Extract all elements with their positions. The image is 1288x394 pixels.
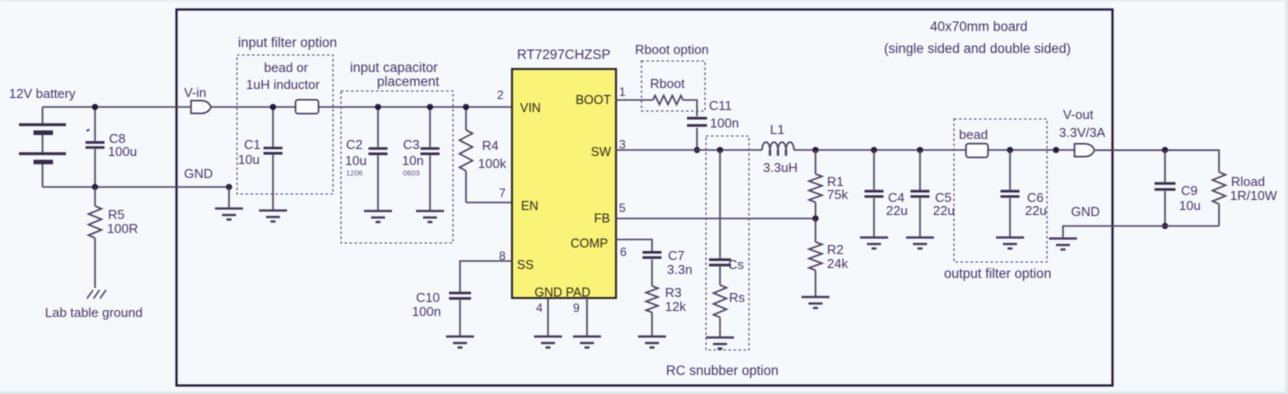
svg-text:SS: SS [517,258,534,272]
resistor R3 [646,285,686,336]
capacitor C8 [86,107,137,187]
svg-text:R4: R4 [482,138,499,153]
wire: V-in to VIN pin (input rail) [211,106,513,108]
svg-text:1: 1 [619,85,626,99]
svg-text:R5: R5 [108,207,125,222]
svg-text:SW: SW [591,145,611,159]
svg-text:V-out: V-out [1063,107,1094,122]
svg-text:10n: 10n [402,153,424,168]
resistor Rboot [650,76,685,105]
wire: GND stem [228,187,230,208]
junction: C2 top [375,104,381,110]
wire: V-out to Rload [1095,150,1219,172]
capacitor C6 [1001,150,1047,237]
svg-text:GND PAD: GND PAD [535,286,591,300]
wire: battery + rail to V-in [43,106,192,108]
capacitor C9 [1155,150,1201,226]
ground: output GND [1049,239,1077,250]
inductor L1 [762,122,798,175]
bottom edge strip [0,392,1288,394]
svg-text:100u: 100u [108,144,137,159]
ferrite bead (input) [296,100,319,114]
svg-text:R2: R2 [827,242,844,257]
svg-text:C9: C9 [1181,183,1198,198]
connector V-in [184,85,211,113]
lab table ground symbol [45,290,143,320]
svg-text:1uH inductor: 1uH inductor [246,77,320,92]
wire: EN pin [466,202,513,204]
svg-text:100n: 100n [710,116,739,131]
svg-text:input filter option: input filter option [238,35,337,50]
svg-text:4: 4 [536,301,543,315]
svg-text:EN: EN [521,199,538,213]
capacitor C5 [911,150,955,237]
svg-text:output filter option: output filter option [944,266,1051,281]
wire: GND pad pin 9 [586,298,588,337]
wire: SS pin to C10 [460,261,513,292]
junction: FB divider [812,215,818,221]
ground: C6 [996,238,1024,249]
dashed box: RC snubber option [706,136,749,350]
svg-text:input capacitor: input capacitor [350,60,438,75]
junction: C6 tap [1007,147,1013,153]
resistor Rs [714,267,746,337]
svg-text:12V battery: 12V battery [9,86,76,101]
svg-text:bead or: bead or [264,60,309,75]
svg-text:22u: 22u [933,203,955,218]
svg-text:22u: 22u [886,203,908,218]
svg-text:40x70mm board: 40x70mm board [930,19,1028,34]
svg-text:C7: C7 [668,248,685,263]
svg-text:Cs: Cs [728,257,744,272]
svg-text:V-in: V-in [184,85,206,100]
wire: FB pin to divider [615,218,816,220]
ground: C4 [860,238,888,249]
svg-text:Rs: Rs [729,290,745,305]
svg-text:Rload: Rload [1231,174,1265,189]
svg-text:VIN: VIN [520,101,541,115]
junction: C9 bottom [1162,223,1168,229]
wire: load return (GND) [1063,226,1219,238]
svg-text:0603: 0603 [403,169,420,178]
svg-text:GND: GND [184,166,213,181]
ferrite bead (output) [966,144,988,158]
svg-text:Rboot: Rboot [650,76,685,91]
ground: pin 4 [534,337,562,348]
svg-text:9: 9 [573,301,580,315]
svg-text:24k: 24k [827,256,848,271]
svg-text:10u: 10u [345,153,367,168]
ground: pin 9 [573,337,601,348]
svg-text:5: 5 [619,201,626,215]
ground: R2 [802,297,830,308]
ground: input GND [215,209,243,220]
svg-text:1R/10W: 1R/10W [1230,188,1278,203]
wire: GND pad pin 4 [547,298,549,337]
svg-text:placement: placement [377,74,440,89]
junction: C4 tap [871,147,877,153]
capacitor C11 [687,98,739,150]
ground: C10 [446,337,474,348]
dashed box: Rboot option [642,61,706,111]
svg-text:C3: C3 [403,137,420,152]
junction: snubber tap [717,147,723,153]
svg-text:100R: 100R [107,221,138,236]
resistor Rload [1213,172,1278,226]
svg-text:100n: 100n [412,304,441,319]
ground: R3 [638,337,666,348]
svg-text:2: 2 [497,88,504,102]
resistor R5 [89,187,139,288]
svg-text:Rboot option: Rboot option [635,42,709,57]
svg-text:6: 6 [620,245,627,259]
dashed box: input filter option [237,55,333,194]
svg-text:12k: 12k [665,299,686,314]
capacitor C10 [412,290,471,336]
wire: battery - rail (GND) [43,186,230,188]
svg-text:BOOT: BOOT [576,93,612,107]
svg-text:3.3uH: 3.3uH [763,160,798,175]
resistor R4 [460,107,507,203]
svg-text:100k: 100k [478,156,507,171]
svg-text:RT7297CHZSP: RT7297CHZSP [517,47,611,62]
svg-text:8: 8 [499,249,506,263]
junction: C9 top [1162,147,1168,153]
svg-text:10u: 10u [238,152,260,167]
svg-text:3.3n: 3.3n [667,262,692,277]
svg-text:C11: C11 [709,98,732,113]
junction: C8 top [92,104,98,110]
svg-text:C1: C1 [244,137,261,152]
ground: snubber [706,338,734,349]
battery BT1 12V [9,86,76,187]
junction: R1 tap [812,147,818,153]
svg-text:L1: L1 [770,122,784,137]
junction: R4 top [463,104,469,110]
svg-text:FB: FB [594,212,610,226]
resistor R2 [809,219,848,297]
capacitor C3 [402,107,440,211]
junction: C11 to SW [694,147,700,153]
svg-text:Lab table ground: Lab table ground [45,305,143,320]
svg-text:10u: 10u [1179,198,1201,213]
junction: pre V-out [1053,147,1059,153]
svg-text:7: 7 [499,186,506,200]
wire: BOOT pin to Rboot [615,99,653,101]
capacitor C2 [345,107,388,211]
right edge strip [1285,0,1288,394]
wire: COMP pin to C7 [615,240,652,251]
top edge strip [0,0,1288,2]
ground: C5 [906,238,934,249]
svg-text:C2: C2 [346,137,363,152]
wire: Rboot to C11 [683,100,697,116]
junction: C3 top [427,104,433,110]
svg-text:GND: GND [1071,204,1100,219]
svg-text:C10: C10 [416,290,440,305]
junction: GND rail end [226,184,232,190]
capacitor Cs [709,150,744,272]
ground: C2 [364,211,392,222]
svg-text:R3: R3 [665,285,682,300]
svg-text:1206: 1206 [346,169,363,178]
ground: C1 [259,211,287,222]
ground: C3 [416,211,444,222]
junction: C8 bottom [92,184,98,190]
svg-text:bead: bead [959,127,988,142]
svg-text:75k: 75k [827,187,848,202]
capacitor C7 [643,248,693,286]
board outline [177,10,1113,386]
svg-text:3.3V/3A: 3.3V/3A [1059,125,1106,140]
dashed box: output filter option [954,119,1047,262]
junction: C5 tap [917,147,923,153]
svg-text:(single sided and double sided: (single sided and double sided) [884,41,1071,56]
resistor R1 [809,150,848,219]
svg-text:COMP: COMP [571,237,609,251]
svg-text:RC snubber option: RC snubber option [666,363,779,378]
junction: C1 top [270,104,276,110]
wire: bead to V-out [988,149,1075,151]
wire: L1 to output rail [794,149,966,151]
capacitor C4 [865,150,908,237]
capacitor C1 [238,107,283,211]
wire: SW pin to L1 [615,149,762,151]
IC U1 RT7297CHZSP [512,47,616,300]
dashed box: input capacitor placement [341,91,453,243]
svg-text:22u: 22u [1025,203,1047,218]
connector V-out [1059,107,1106,157]
